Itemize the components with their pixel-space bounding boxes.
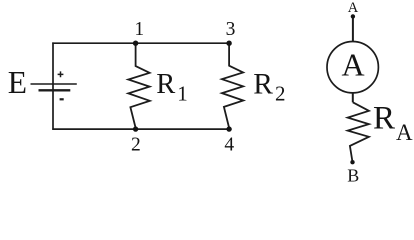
node 3 junction dot xyxy=(226,41,231,46)
svg-text:E: E xyxy=(8,65,27,100)
svg-text:1: 1 xyxy=(177,82,188,106)
wire bottom rail xyxy=(52,128,229,130)
terminal A dot xyxy=(351,14,355,18)
svg-text:R: R xyxy=(253,69,273,101)
svg-text:3: 3 xyxy=(226,19,236,40)
terminal B dot xyxy=(350,160,354,164)
resistor R2 zigzag xyxy=(222,43,243,129)
wire left branch xyxy=(52,42,54,129)
battery minus sign xyxy=(60,98,64,100)
wire terminal A to ammeter xyxy=(352,16,354,41)
battery plus sign xyxy=(58,71,64,77)
battery E bottom plate xyxy=(39,89,71,91)
node 4 junction dot xyxy=(226,126,231,131)
svg-text:2: 2 xyxy=(275,82,286,106)
svg-text:2: 2 xyxy=(131,134,141,155)
svg-text:A: A xyxy=(348,0,359,16)
svg-text:A: A xyxy=(396,120,413,145)
wire top rail xyxy=(52,42,229,44)
node 1 junction dot xyxy=(133,41,138,46)
svg-text:R: R xyxy=(156,69,175,100)
wire ammeter to RA xyxy=(352,93,354,102)
battery E top plate xyxy=(31,83,77,85)
svg-text:B: B xyxy=(347,165,359,184)
svg-text:A: A xyxy=(341,47,364,83)
svg-text:4: 4 xyxy=(224,135,234,156)
resistor R1 zigzag xyxy=(128,43,150,129)
ammeter U1 circle xyxy=(327,41,378,92)
svg-text:R: R xyxy=(373,100,395,136)
resistor RA zigzag xyxy=(348,102,369,162)
node 2 junction dot xyxy=(133,126,138,131)
svg-text:1: 1 xyxy=(134,19,144,40)
